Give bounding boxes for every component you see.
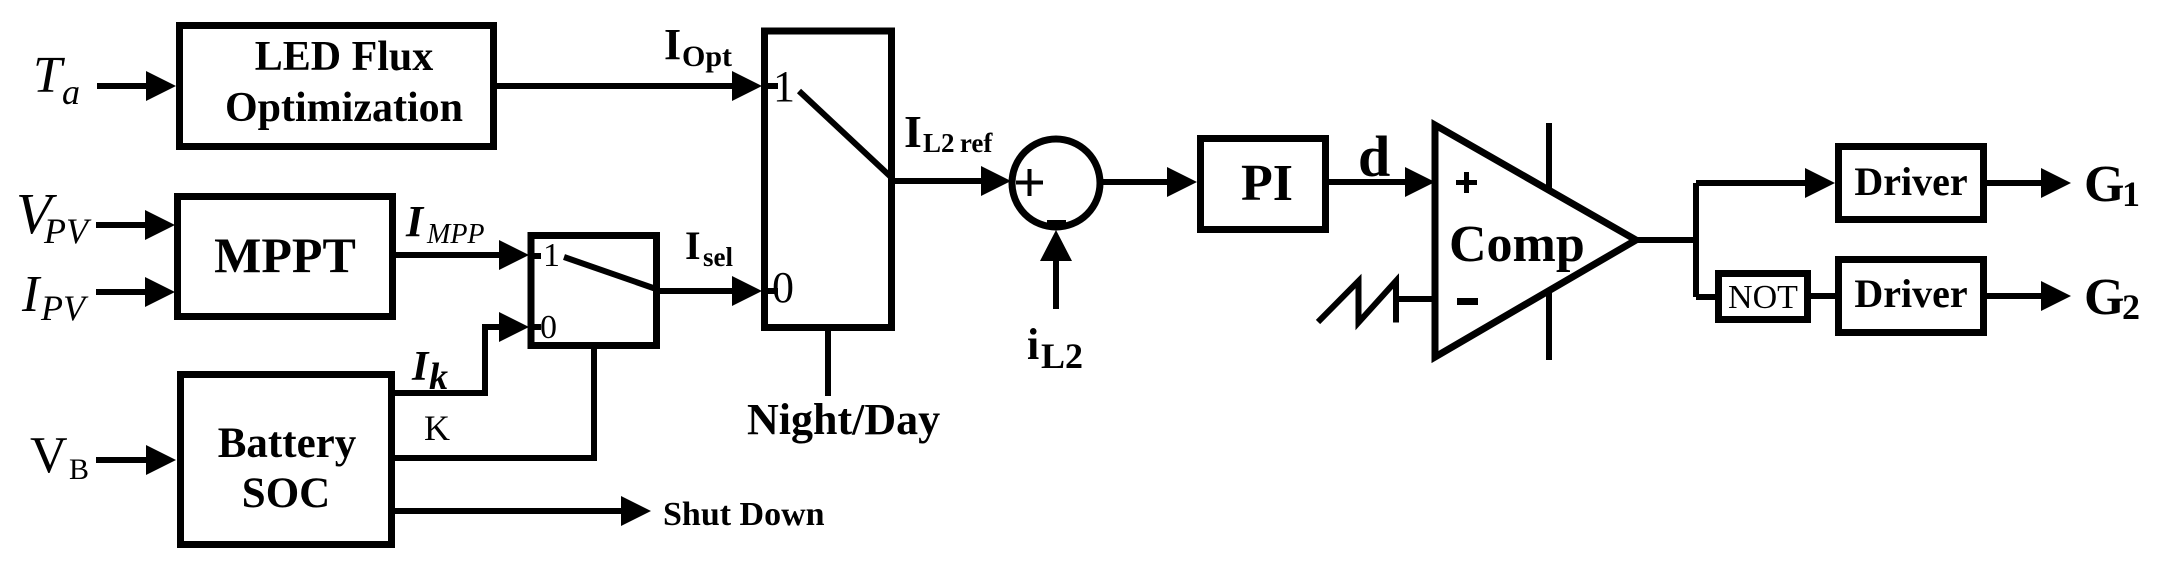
svg-text:MPPT: MPPT: [214, 227, 356, 283]
svg-text:PV: PV: [40, 288, 89, 328]
wire i_L2 feedback into summing junction: [1053, 260, 1059, 309]
pin stub 1 of Night/Day: [765, 83, 778, 89]
sawtooth carrier symbol: [1318, 281, 1396, 323]
pin stub 0 of selector: [530, 324, 541, 330]
wire Driver 1 output G1: [1987, 180, 2043, 186]
arrowhead G1: [2041, 168, 2071, 198]
svg-text:PI: PI: [1241, 155, 1293, 212]
clip line upper of Comp: [1546, 123, 1552, 192]
block Driver 1: [1839, 147, 1984, 220]
svg-text:T: T: [33, 47, 65, 104]
svg-text:Driver: Driver: [1854, 159, 1967, 204]
summing junction: [1012, 139, 1100, 227]
arrowhead into PI: [1167, 167, 1197, 197]
svg-text:a: a: [62, 72, 80, 112]
svg-text:G: G: [2084, 156, 2124, 213]
svg-text:Driver: Driver: [1854, 271, 1967, 316]
arrowhead I_Opt: [732, 71, 762, 101]
svg-text:SOC: SOC: [242, 470, 330, 517]
wire K: Battery SOC to selector select pin: [395, 343, 594, 458]
switch lever Night/Day: [799, 91, 891, 177]
arrowhead V_B: [146, 445, 176, 475]
wire Driver 2 output G2: [1987, 293, 2043, 299]
svg-text:0: 0: [540, 309, 557, 346]
arrowhead I_PV: [145, 277, 175, 307]
wire summing junction to PI: [1103, 179, 1171, 185]
wire NOT to Driver 2: [1811, 293, 1835, 299]
block Driver 2: [1839, 260, 1984, 333]
switch lever selector: [564, 257, 659, 290]
arrowhead I_k: [499, 312, 529, 342]
minus input sign of Comp: [1457, 298, 1478, 305]
op-amp comparator Comp: [1435, 125, 1636, 357]
arrowhead Ta input: [146, 71, 176, 101]
svg-text:Battery: Battery: [218, 420, 357, 467]
wire select stem Night/Day: [825, 331, 831, 396]
wire sawtooth to Comp minus input: [1396, 296, 1435, 302]
minus sign of summing junction: [1047, 220, 1066, 225]
svg-text:1: 1: [2122, 174, 2140, 214]
svg-text:sel: sel: [703, 242, 733, 272]
block MPPT: [178, 197, 393, 317]
arrowhead Shut Down: [621, 496, 651, 526]
svg-text:LED Flux: LED Flux: [255, 34, 434, 80]
svg-text:2: 2: [2122, 287, 2140, 327]
arrowhead I_MPP: [499, 240, 529, 270]
svg-text:Night/Day: Night/Day: [747, 395, 940, 444]
svg-text:NOT: NOT: [1728, 279, 1798, 316]
svg-text:I: I: [411, 344, 430, 390]
arrowhead I_sel: [732, 276, 762, 306]
svg-text:I: I: [405, 197, 425, 246]
svg-text:MPP: MPP: [426, 219, 485, 250]
label G1: [2084, 156, 2140, 214]
svg-text:Comp: Comp: [1449, 216, 1585, 273]
svg-text:PV: PV: [43, 211, 92, 251]
wire I_sel: selector to Night/Day switch input 0: [659, 288, 741, 294]
svg-text:Opt: Opt: [682, 40, 732, 73]
arrowhead I_L2ref: [981, 166, 1011, 196]
wire Comp output trunk: [1636, 183, 1806, 297]
label I_Opt: [664, 20, 732, 73]
block PI: [1201, 139, 1326, 230]
svg-text:Optimization: Optimization: [225, 85, 463, 131]
svg-text:L2: L2: [1041, 336, 1083, 376]
svg-text:I: I: [664, 20, 681, 69]
arrowhead d: [1405, 167, 1435, 197]
svg-text:G: G: [2084, 269, 2124, 326]
wire I_PV to MPPT: [96, 289, 148, 295]
svg-text:L2 ref: L2 ref: [923, 128, 993, 158]
pin stub 1 of selector: [530, 253, 541, 259]
arrowhead V_PV: [145, 210, 175, 240]
svg-text:i: i: [1027, 320, 1039, 369]
svg-text:Shut Down: Shut Down: [663, 496, 825, 533]
label I_MPP: [405, 197, 485, 250]
svg-text:k: k: [429, 356, 448, 398]
arrowhead i_L2: [1040, 230, 1072, 261]
svg-text:1: 1: [543, 237, 560, 274]
wire I_Opt: LED Flux to Night/Day switch input 1: [497, 83, 740, 89]
label i_L2: [1027, 320, 1083, 376]
plus sign of summing junction: [1016, 169, 1043, 196]
svg-text:B: B: [69, 453, 89, 486]
switch box selector (I_sel): [531, 236, 657, 346]
svg-text:I: I: [904, 106, 922, 157]
label I_sel: [685, 223, 733, 272]
node V_B label: [30, 427, 89, 486]
block Battery SOC: [181, 375, 392, 545]
svg-text:V: V: [30, 427, 68, 484]
wire I_MPP: MPPT to selector switch input 1: [396, 252, 508, 258]
svg-text:0: 0: [772, 263, 794, 312]
node Ta label: [33, 47, 80, 112]
wire I_k: Battery SOC to selector input 0: [395, 327, 508, 393]
label G2: [2084, 269, 2140, 327]
svg-text:K: K: [424, 408, 450, 448]
pin stub 0 of Night/Day: [765, 288, 778, 294]
svg-text:d: d: [1358, 124, 1390, 189]
wire Ta to LED Flux block: [97, 83, 150, 89]
svg-text:1: 1: [773, 62, 795, 111]
wire d: PI to comparator: [1329, 179, 1408, 185]
label I_L2ref: [904, 106, 993, 158]
wire V_B to Battery SOC: [96, 457, 148, 463]
arrowhead G2: [2041, 281, 2071, 311]
gate NOT: [1719, 274, 1808, 320]
block LED Flux Optimization: [180, 26, 494, 147]
wire I_L2ref: Night/Day to summing junction: [895, 178, 988, 184]
clip line lower of Comp: [1546, 293, 1552, 360]
node I_PV label: [21, 266, 89, 328]
wire Shut Down: [395, 508, 624, 514]
switch box Night/Day: [765, 31, 892, 328]
svg-text:I: I: [685, 223, 701, 268]
arrowhead into Driver 1: [1805, 168, 1835, 198]
plus input sign of Comp: [1456, 172, 1477, 193]
svg-text:I: I: [21, 266, 42, 323]
wire V_PV to MPPT: [96, 222, 148, 228]
label I_k: [411, 344, 448, 398]
node V_PV label: [16, 181, 92, 251]
